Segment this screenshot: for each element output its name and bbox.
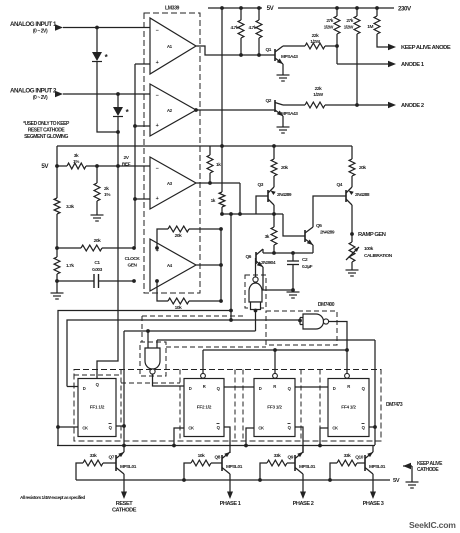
svg-text:LM339: LM339 xyxy=(165,6,179,12)
wire gate A input2 drop xyxy=(156,340,158,348)
resistor 20k Q4 xyxy=(349,159,366,187)
junction B2 riser xyxy=(229,309,233,313)
junction riser clock bus xyxy=(229,318,233,322)
junction FF3 reset xyxy=(273,348,277,352)
transistor Q4 2N4288 xyxy=(337,182,370,234)
resistor 3k 1% xyxy=(57,153,97,169)
power rail top 5V xyxy=(208,7,262,9)
svg-text:230V: 230V xyxy=(398,6,412,13)
ground Q1 emitter xyxy=(282,64,284,75)
wire FF1 Qbar feedback line xyxy=(124,330,256,332)
capacitor C1 0.003 xyxy=(57,260,134,288)
svg-text:−: − xyxy=(156,93,159,99)
svg-text:33k: 33k xyxy=(344,453,351,459)
junction 2V ref divider xyxy=(95,164,99,168)
svg-text:MPSL01: MPSL01 xyxy=(299,464,316,470)
flip-flop FF1 1/2 xyxy=(78,379,116,437)
wire FF3 R riser xyxy=(274,350,276,373)
svg-text:SEGMENT GLOWING: SEGMENT GLOWING xyxy=(24,134,68,140)
wire FF2 Q to FF3 D xyxy=(224,386,254,388)
wire Q9 collector xyxy=(302,445,304,452)
junction Q3 emitter bias line xyxy=(272,212,276,216)
wire A4 output xyxy=(196,264,221,266)
transistor Q5 2N4289 xyxy=(305,223,335,245)
svg-text:FF4 1/2: FF4 1/2 xyxy=(341,405,356,410)
svg-text:CATHODE: CATHODE xyxy=(112,508,137,514)
svg-text:R: R xyxy=(273,384,276,389)
junction input1/D1 xyxy=(95,26,99,30)
wire Q3 base loop xyxy=(256,196,268,214)
junction 22k 27k anode1 xyxy=(335,44,339,48)
svg-text:Q9: Q9 xyxy=(288,455,294,461)
wire FF2 CK xyxy=(174,428,184,445)
flip-flop package DM7473 dashed box xyxy=(74,370,381,442)
svg-text:33k: 33k xyxy=(274,453,281,459)
wire FF1 Qbar to Q7 xyxy=(116,425,124,427)
svg-text:R: R xyxy=(347,384,350,389)
svg-text:20k: 20k xyxy=(94,238,101,244)
svg-text:PHASE 1: PHASE 1 xyxy=(220,501,241,507)
potentiometer 100k CALIBRATION xyxy=(346,234,393,262)
node ANODE 2 xyxy=(335,104,389,106)
svg-text:KEEP ALIVE ANODE: KEEP ALIVE ANODE xyxy=(401,45,451,51)
svg-text:RESET: RESET xyxy=(116,501,133,507)
wire phase3 feedback line xyxy=(157,339,375,341)
junction rail Q3 xyxy=(272,144,276,148)
svg-text:1k: 1k xyxy=(211,198,216,204)
gate U2a dashed box xyxy=(245,275,266,308)
svg-text:27k: 27k xyxy=(326,18,333,24)
wire phase3 vertical xyxy=(374,340,376,427)
junction C1 node xyxy=(55,279,59,283)
wire FF1 D input xyxy=(67,386,78,388)
svg-text:2N3904: 2N3904 xyxy=(261,260,276,266)
svg-text:1/2W: 1/2W xyxy=(313,92,323,98)
svg-text:2N4288: 2N4288 xyxy=(355,192,370,198)
svg-text:2N4289: 2N4289 xyxy=(320,230,335,236)
wire divider to 2V REF line xyxy=(97,165,118,167)
transistor Q2 MPSA43 xyxy=(266,98,299,117)
transistor Q3 2N4289 xyxy=(258,182,292,214)
svg-text:3.3k: 3.3k xyxy=(66,204,74,210)
node KEEP ALIVE CATHODE xyxy=(403,461,443,482)
svg-text:MPSL01: MPSL01 xyxy=(369,464,386,470)
svg-text:22k: 22k xyxy=(315,86,322,92)
svg-text:−: − xyxy=(156,166,159,172)
wire reset line to FF4 xyxy=(346,350,348,373)
transistor Q7 MPSL01 reset cathode driver xyxy=(76,463,83,480)
wire ramp summing line xyxy=(263,252,313,254)
wire 5V rail riser xyxy=(56,146,58,166)
junction A4 output xyxy=(219,263,223,267)
svg-text:1/2W: 1/2W xyxy=(344,25,354,31)
ground calibration pot xyxy=(351,262,353,270)
node ANALOG INPUT 1 arrow xyxy=(55,24,63,30)
diode D1 xyxy=(92,28,109,95)
svg-text:MPSL01: MPSL01 xyxy=(120,464,137,470)
svg-text:−: − xyxy=(156,28,159,34)
node KEEP ALIVE ANODE xyxy=(385,46,389,48)
svg-text:1%: 1% xyxy=(104,192,111,198)
svg-text:Q7: Q7 xyxy=(109,455,115,461)
svg-text:C1: C1 xyxy=(94,260,100,266)
svg-text:1/2W: 1/2W xyxy=(310,39,320,45)
resistor 1k Q3 base xyxy=(211,146,225,214)
wire U2c output to FF2 D input xyxy=(153,374,185,386)
junction input2/D2 xyxy=(116,92,120,96)
svg-text:*USED ONLY TO KEEP: *USED ONLY TO KEEP xyxy=(23,121,70,127)
junction diodes common xyxy=(116,130,120,134)
svg-text:20k: 20k xyxy=(281,165,288,171)
wire feedback column x118 to FF1 Q xyxy=(97,166,118,379)
svg-text:Q5: Q5 xyxy=(316,223,322,229)
svg-text:D: D xyxy=(83,386,86,391)
ground C2 xyxy=(292,290,294,292)
svg-text:Q10: Q10 xyxy=(355,455,363,461)
wire gate A input drop xyxy=(147,331,149,348)
transistor Q1 MPSA43 xyxy=(266,46,299,64)
svg-text:ANODE 1: ANODE 1 xyxy=(401,62,425,68)
wire FF3 CK xyxy=(246,428,254,445)
DM7400 group dashed link xyxy=(142,315,245,317)
svg-text:D: D xyxy=(189,386,192,391)
svg-text:RESET CATHODE: RESET CATHODE xyxy=(28,128,66,134)
wire comparator plus-input bus vertical xyxy=(134,64,136,248)
flip-flop FF4 1/2 xyxy=(328,379,369,437)
svg-text:Q8: Q8 xyxy=(215,455,221,461)
svg-text:2N4289: 2N4289 xyxy=(277,192,292,198)
op-amp A1 xyxy=(150,18,196,74)
wire U2a output to Q6 base xyxy=(255,258,257,277)
svg-text:ANODE 2: ANODE 2 xyxy=(401,103,424,109)
svg-text:1k: 1k xyxy=(216,162,221,168)
svg-text:CATHODE: CATHODE xyxy=(417,467,439,473)
gate U2b DM7400 dashed box xyxy=(266,311,337,345)
svg-text:ANALOG INPUT 1: ANALOG INPUT 1 xyxy=(10,21,57,28)
junction 2V ref / feedback column xyxy=(116,164,120,168)
resistor 1k A3 pullup xyxy=(207,146,221,183)
wire analog input 2 to A2 inverting input xyxy=(63,93,150,95)
wire A3 output xyxy=(196,182,240,184)
wire FF4 Qbar junction xyxy=(369,426,375,428)
wire A2 plus input xyxy=(135,125,150,127)
svg-text:3k: 3k xyxy=(74,153,79,159)
svg-text:DM7473: DM7473 xyxy=(386,402,403,408)
svg-text:27k: 27k xyxy=(346,18,353,24)
junction C2 top xyxy=(291,251,295,255)
svg-text:C2: C2 xyxy=(302,257,308,263)
svg-text:100k: 100k xyxy=(364,246,374,252)
transistor Q9 MPSL01 phase2 driver xyxy=(260,463,267,480)
wire FF3 Qbar to Q9 xyxy=(295,427,303,453)
dashed separators xyxy=(120,370,122,442)
resistor 27k 1/2W first xyxy=(324,6,340,46)
resistor 4.7k first xyxy=(230,6,243,55)
reset bubble FF2 xyxy=(201,373,206,378)
flip-flop FF3 1/2 xyxy=(254,379,295,437)
svg-text:1/2W: 1/2W xyxy=(324,25,334,31)
resistor 3k xyxy=(265,214,277,253)
svg-text:CALIBRATION: CALIBRATION xyxy=(364,253,393,259)
op-amp A2 xyxy=(150,84,196,136)
dashed FF1 box top xyxy=(74,374,121,376)
svg-text:RAMP GEN: RAMP GEN xyxy=(358,232,386,238)
svg-text:REF: REF xyxy=(122,162,131,168)
svg-text:0.2µF: 0.2µF xyxy=(302,264,313,270)
svg-text:Q1: Q1 xyxy=(266,47,272,53)
junction C2 ground xyxy=(291,288,295,292)
svg-text:MPSL01: MPSL01 xyxy=(226,464,243,470)
svg-text:22k: 22k xyxy=(312,33,319,39)
svg-text:PHASE 2: PHASE 2 xyxy=(293,501,314,507)
svg-text:5V: 5V xyxy=(267,5,275,12)
resistor 4.7k second xyxy=(248,6,261,55)
junctions clock line xyxy=(122,444,126,448)
node ANALOG INPUT 2 arrow xyxy=(55,91,63,97)
svg-text:*: * xyxy=(126,108,130,117)
svg-text:0.003: 0.003 xyxy=(92,267,103,273)
resistor 1.7k xyxy=(54,248,74,281)
svg-text:3k: 3k xyxy=(265,234,270,240)
junction FF1 CK tap xyxy=(56,425,60,429)
junction 4.7k outputs xyxy=(239,53,243,57)
wire bias line xyxy=(222,213,283,215)
ground Q2 emitter xyxy=(282,116,284,127)
svg-text:(0 ~ 2V): (0 ~ 2V) xyxy=(33,29,48,35)
wire A2 output to Q2 base xyxy=(196,109,275,111)
svg-text:1.7k: 1.7k xyxy=(66,263,74,269)
svg-text:FF3 1/2: FF3 1/2 xyxy=(267,405,282,410)
svg-text:DM7400: DM7400 xyxy=(318,302,335,308)
svg-text:D: D xyxy=(333,386,336,391)
svg-text:SeekIC.com: SeekIC.com xyxy=(409,520,456,530)
wire bus B2 clock line to x231 riser xyxy=(58,311,231,446)
capacitor C2 0.2uF xyxy=(287,253,313,290)
svg-text:Q3: Q3 xyxy=(258,182,264,188)
wire Q6 emitter to ground line xyxy=(263,267,293,290)
wire diode common corner xyxy=(97,94,118,132)
wire A3 minus input from 2V REF xyxy=(118,165,150,167)
resistor 3.3k xyxy=(54,166,74,248)
resistor 27k 1/2W second xyxy=(344,6,360,105)
junction A4 plus node xyxy=(132,246,136,250)
gate U2b NAND xyxy=(300,314,329,329)
ground keep alive cathode xyxy=(406,481,419,483)
wire A3 output drop to bias line xyxy=(239,183,241,214)
wire Q4 base from Q5 collector xyxy=(313,196,346,227)
diode D2 xyxy=(113,94,130,132)
resistor 2k 1% xyxy=(94,166,111,215)
svg-text:Q2: Q2 xyxy=(266,98,272,104)
gate U2a NAND as inverter xyxy=(249,277,262,310)
wire Q5 base from bias line xyxy=(283,214,305,236)
wire A1 output to Q1 base xyxy=(196,46,275,55)
svg-text:4.7k: 4.7k xyxy=(230,25,238,31)
junction 3k node xyxy=(272,251,276,255)
wire FF2 Qbar to Q8 xyxy=(224,427,230,453)
svg-text:CLOCK: CLOCK xyxy=(125,256,141,262)
svg-text:2V: 2V xyxy=(124,155,130,161)
junction clock RC node xyxy=(55,246,59,250)
power rail top 230V xyxy=(278,7,394,9)
junction bottom rail xyxy=(182,478,186,482)
svg-text:Q6: Q6 xyxy=(246,254,252,260)
dashed link FF1 FF2 xyxy=(121,382,180,384)
op-amp package LM339 dashed box xyxy=(144,13,200,293)
svg-text:*: * xyxy=(105,53,109,62)
wire FF3 Q to FF4 D xyxy=(295,386,328,388)
transistor Q8 MPSL01 phase1 driver xyxy=(184,463,191,480)
svg-text:+: + xyxy=(156,123,159,129)
svg-text:+: + xyxy=(156,60,159,66)
svg-text:(0 ~ 2V): (0 ~ 2V) xyxy=(33,95,48,101)
transistor Q6 2N3904 xyxy=(246,249,276,267)
reset bubble FF4 xyxy=(345,373,350,378)
junction A3 output 1k xyxy=(208,181,212,185)
wire riser from bias line to clock bus xyxy=(230,214,232,320)
junction reset line xyxy=(345,348,349,352)
junction RAMP GEN xyxy=(350,232,354,236)
resistor 22k 1/2W Q2 xyxy=(283,86,335,108)
junction U2b input xyxy=(298,319,302,323)
svg-text:Q4: Q4 xyxy=(337,182,343,188)
svg-text:CK: CK xyxy=(258,426,264,431)
svg-text:GEN: GEN xyxy=(127,263,137,269)
svg-text:5V: 5V xyxy=(41,163,49,170)
op-amp A4 xyxy=(150,239,196,291)
wire Q10 collector xyxy=(374,427,376,445)
wire diode common to 2V REF node xyxy=(117,132,119,166)
power rail bottom 5V xyxy=(76,479,390,481)
resistor 1M xyxy=(367,6,385,47)
wire FF1 CK input xyxy=(58,426,78,428)
svg-text:FF1 1/2: FF1 1/2 xyxy=(90,405,105,410)
wire U2a input drop xyxy=(255,311,257,332)
svg-text:ANALOG INPUT 2: ANALOG INPUT 2 xyxy=(10,88,57,95)
svg-text:1M: 1M xyxy=(367,24,373,30)
wire anode1 drop xyxy=(336,46,338,64)
wire bus H1 to FF1 D xyxy=(67,320,300,387)
svg-text:10k: 10k xyxy=(198,453,205,459)
svg-text:CK: CK xyxy=(332,426,338,431)
svg-text:CK: CK xyxy=(188,426,194,431)
flip-flop FF2 1/2 xyxy=(184,379,224,437)
svg-text:All resistors 1/4W except as s: All resistors 1/4W except as specified xyxy=(20,495,86,500)
svg-text:20k: 20k xyxy=(175,233,182,239)
svg-text:1%: 1% xyxy=(73,159,80,165)
junction 5V node xyxy=(55,164,59,168)
svg-text:CK: CK xyxy=(82,426,88,431)
wire U2b output to FF3 FF4 reset xyxy=(329,322,347,351)
svg-text:R: R xyxy=(203,384,206,389)
wire A3 plus input xyxy=(135,198,150,200)
wire analog input 1 to A1 inverting input xyxy=(63,27,150,29)
gate U2c dashed box xyxy=(140,342,166,376)
svg-text:2k: 2k xyxy=(104,186,109,192)
resistor 20k A4 feedback xyxy=(155,226,223,265)
transistor Q10 MPSL01 phase3 driver xyxy=(330,463,337,480)
ground clock RC xyxy=(56,281,58,293)
wire FF2 R riser xyxy=(202,350,204,373)
svg-text:20k: 20k xyxy=(359,165,366,171)
svg-text:4.7k: 4.7k xyxy=(248,25,256,31)
svg-text:33k: 33k xyxy=(90,453,97,459)
wire reset line to FF2 FF3 xyxy=(203,349,347,351)
svg-text:+: + xyxy=(156,196,159,202)
svg-text:PHASE 3: PHASE 3 xyxy=(363,501,384,507)
svg-text:D: D xyxy=(259,386,262,391)
wire Q4 rail corner xyxy=(351,146,353,159)
resistor 22k 1/2W Q1 xyxy=(283,33,337,49)
junction 1k rail xyxy=(220,212,224,216)
svg-text:FF2 1/2: FF2 1/2 xyxy=(197,405,212,410)
resistor 20k Q3 xyxy=(271,146,288,187)
junction U2a input tie xyxy=(254,309,258,313)
node ANODE 1 xyxy=(337,63,389,65)
op-amp A3 xyxy=(150,157,196,209)
wire FF4 CK xyxy=(320,428,328,445)
svg-text:MPSA43: MPSA43 xyxy=(281,54,298,60)
wire A1 plus input xyxy=(135,63,150,65)
svg-text:5V: 5V xyxy=(393,478,400,484)
junction A4 minus node xyxy=(132,279,136,283)
wire clock distribution line xyxy=(57,445,375,447)
reset bubble FF3 xyxy=(273,373,278,378)
gate U2c NAND inverted down xyxy=(145,348,160,374)
resistor 20k clock xyxy=(57,238,134,251)
junction gate A input xyxy=(146,329,150,333)
wire vertical rail x222 xyxy=(221,8,223,146)
resistor 10k A4 feedback xyxy=(155,265,223,311)
ground 2k xyxy=(91,214,104,216)
wire Q7 collector xyxy=(123,426,125,452)
power rail 5V horizontal xyxy=(57,145,352,147)
